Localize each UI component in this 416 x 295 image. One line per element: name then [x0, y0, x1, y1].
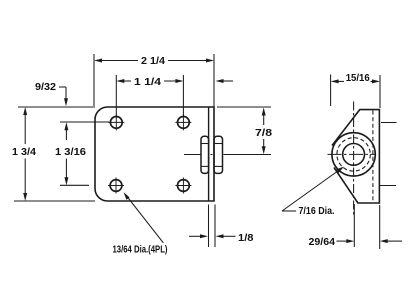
boss right half (rounded rect)	[214, 136, 223, 173]
middle dashed circle	[337, 138, 370, 171]
boss hidden hole lines	[202, 144, 223, 167]
dim 1 3/16	[60, 122, 109, 185]
dim 1 1/4	[116, 75, 233, 116]
dim 15/16	[331, 75, 380, 109]
hole circle	[343, 144, 365, 166]
boss left half (rounded rect)	[201, 136, 209, 173]
dim 9/32 leader	[59, 87, 66, 100]
hole bottom-left	[108, 178, 124, 194]
outline	[332, 110, 379, 203]
svg-text:1/8: 1/8	[238, 233, 254, 244]
plate outline	[95, 107, 214, 201]
bend line	[208, 107, 210, 201]
hole top-right	[175, 114, 191, 130]
svg-text:2 1/4: 2 1/4	[141, 56, 165, 67]
hole bottom-right	[175, 178, 191, 194]
svg-text:1 1/4: 1 1/4	[134, 77, 162, 88]
hidden line plate inner face	[372, 111, 374, 203]
hole top-left	[108, 114, 124, 130]
dim 2 1/4	[94, 54, 214, 107]
shared up arrow at hole row	[64, 122, 68, 130]
dim 29/64	[337, 204, 403, 249]
horizontal centerline	[328, 153, 376, 155]
leader 13/64 Dia.(4PL)	[126, 195, 164, 243]
hole row ticks	[381, 122, 397, 124]
dim 1/8	[189, 205, 236, 248]
svg-text:1 3/16: 1 3/16	[55, 147, 86, 158]
boss outer circle	[332, 133, 375, 176]
dim 7/8	[217, 107, 271, 150]
leader 7/16 Dia.	[282, 168, 342, 211]
svg-text:9/32: 9/32	[35, 82, 56, 93]
vertical centerline	[353, 102, 355, 217]
svg-text:15/16: 15/16	[346, 73, 370, 84]
svg-text:29/64: 29/64	[309, 237, 336, 248]
svg-text:7/8: 7/8	[255, 128, 273, 139]
svg-text:7/16 Dia.: 7/16 Dia.	[299, 206, 335, 217]
svg-text:1 3/4: 1 3/4	[12, 147, 36, 158]
boss centerline	[184, 154, 271, 156]
svg-text:13/64 Dia.(4PL): 13/64 Dia.(4PL)	[113, 245, 168, 256]
dim 1 3/4	[14, 107, 95, 201]
